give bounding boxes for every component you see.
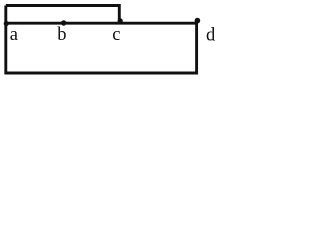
wire: upper loop (small rectangle a-c) (6, 6, 120, 24)
node c (junction dot) (118, 18, 123, 23)
node a (junction dot) (4, 21, 9, 26)
svg-text:b: b (57, 25, 66, 45)
wire: outer loop (big rectangle a-d-bottom) (6, 6, 197, 74)
node b (junction dot) (61, 20, 66, 25)
wire: main horizontal conductor a-b-c-d (6, 22, 198, 25)
node d (junction dot) (195, 18, 201, 24)
svg-text:a: a (10, 25, 18, 45)
svg-text:d: d (206, 25, 216, 45)
svg-text:c: c (112, 25, 120, 45)
